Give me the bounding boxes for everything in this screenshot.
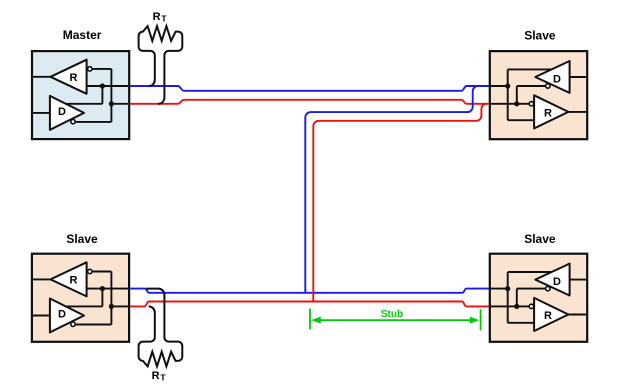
- svg-text:Stub: Stub: [381, 309, 403, 320]
- svg-text:Master: Master: [63, 28, 102, 42]
- svg-text:T: T: [161, 14, 167, 24]
- svg-text:Slave: Slave: [524, 232, 556, 246]
- svg-text:Slave: Slave: [66, 232, 98, 246]
- svg-text:Slave: Slave: [524, 28, 556, 42]
- svg-text:R: R: [153, 11, 161, 23]
- svg-text:R: R: [152, 370, 160, 382]
- svg-text:T: T: [160, 373, 166, 383]
